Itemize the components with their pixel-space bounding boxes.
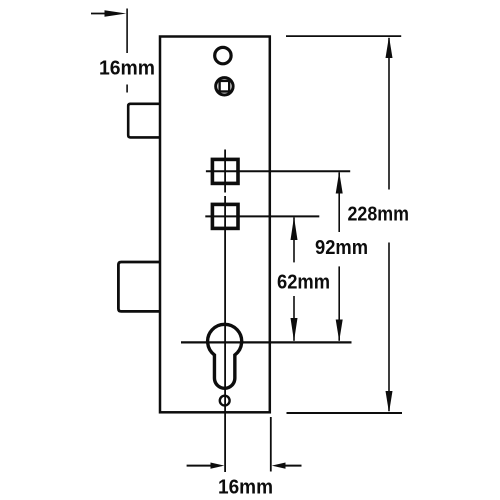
- svg-text:16mm: 16mm: [218, 477, 273, 499]
- svg-text:92mm: 92mm: [315, 237, 368, 259]
- svg-text:228mm: 228mm: [348, 204, 410, 226]
- svg-text:62mm: 62mm: [277, 272, 330, 294]
- svg-text:16mm: 16mm: [99, 58, 155, 80]
